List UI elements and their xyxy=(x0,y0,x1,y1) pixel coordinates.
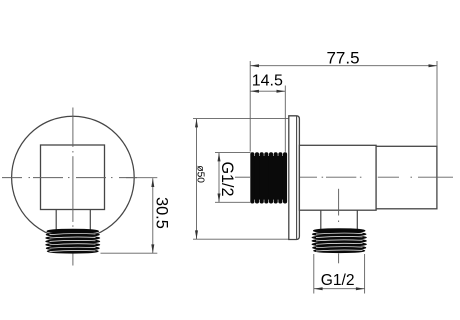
svg-text:ø50: ø50 xyxy=(194,165,205,183)
side view body block 2 xyxy=(376,146,437,209)
phi50 label (rotated) xyxy=(194,165,205,183)
front view circle (flange outline) xyxy=(12,116,135,239)
dimension label 14.5 xyxy=(252,73,283,90)
bottom G1/2 extension lines xyxy=(314,254,365,294)
bottom G1/2 dimension line with arrows xyxy=(314,287,365,290)
side view flange plate xyxy=(289,116,300,240)
phi50 dimension line with arrows xyxy=(195,119,198,240)
G1/2 dimension line (side) with arrows xyxy=(218,153,221,203)
extension line left (77.5/14.5) xyxy=(249,61,251,152)
front view threaded outlet (coil thread) xyxy=(46,229,100,253)
extension line bottom for 30.5 xyxy=(101,252,158,254)
dimension line 77.5 with arrows xyxy=(250,64,437,67)
extension line top for 30.5 (centerline extension) xyxy=(126,177,157,179)
dimension label 77.5 xyxy=(326,48,359,67)
svg-text:G1/2: G1/2 xyxy=(321,272,355,289)
extension line right 14.5 xyxy=(284,86,286,152)
side view outlet vertical centerline xyxy=(338,189,340,263)
extension line right 77.5 xyxy=(436,61,438,146)
svg-text:14.5: 14.5 xyxy=(252,73,283,90)
phi50 extension lines xyxy=(193,119,291,240)
bottom G1/2 label xyxy=(321,272,355,289)
front view neck below square xyxy=(56,210,90,230)
side view horizontal centerline xyxy=(235,176,453,178)
front view square body xyxy=(41,145,105,210)
G1/2 extension lines (side) xyxy=(215,153,251,203)
side view outlet neck xyxy=(321,210,358,229)
dimension label 30.5 (rotated) xyxy=(152,197,170,229)
front view vertical centerline xyxy=(72,108,74,266)
svg-text:30.5: 30.5 xyxy=(152,197,170,229)
side view body block 1 xyxy=(299,145,376,210)
front view horizontal centerline xyxy=(2,177,137,179)
svg-text:G1/2: G1/2 xyxy=(218,161,236,196)
svg-text:77.5: 77.5 xyxy=(326,48,359,67)
side view outlet coil thread xyxy=(312,229,366,253)
side view wall thread (vertical ridges) xyxy=(250,152,287,203)
G1/2 label (side, rotated) xyxy=(218,161,236,196)
dimension line 30.5 with arrows xyxy=(151,178,154,253)
dimension line 14.5 with arrows xyxy=(250,90,285,93)
